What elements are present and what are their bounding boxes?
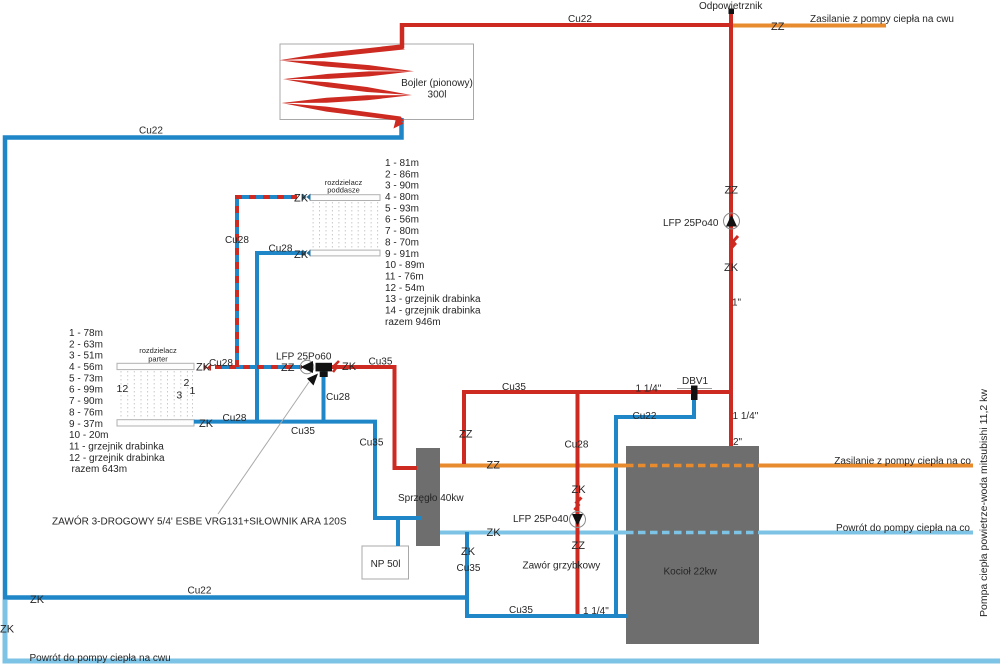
label Cu28 parter supply	[209, 358, 233, 369]
label loop number 12	[117, 383, 129, 395]
svg-text:8 - 70m: 8 - 70m	[385, 237, 419, 248]
valve ball ZK parter supply (red)	[204, 364, 212, 371]
svg-text:LFP 25Po40: LFP 25Po40	[663, 218, 719, 229]
valve ball ZK poddasze supply	[303, 194, 311, 201]
svg-text:10 - 89m: 10 - 89m	[385, 260, 424, 271]
label ZK red drop	[572, 484, 587, 496]
label LFP 25Po40 bottom	[513, 514, 569, 525]
label NP 50l	[371, 559, 401, 570]
label rozdzielacz parter	[139, 346, 177, 363]
label ZK parter supply	[196, 362, 211, 374]
svg-text:ZZ: ZZ	[459, 429, 473, 441]
label Cu35 red branch	[502, 382, 526, 393]
wire red drop to orange junction	[462, 392, 466, 464]
svg-text:6 - 99m: 6 - 99m	[69, 385, 103, 396]
label 1 1/4 inch riser	[733, 411, 759, 422]
svg-text:14 - grzejnik drabinka: 14 - grzejnik drabinka	[385, 306, 481, 317]
list poddasze loop lengths	[385, 158, 481, 328]
label Pompa ciepla vertical	[978, 389, 990, 617]
svg-text:2 - 86m: 2 - 86m	[385, 169, 419, 180]
svg-text:ZK: ZK	[30, 594, 45, 606]
svg-text:1": 1"	[732, 298, 742, 309]
label Bojler (pionowy) 300l	[401, 78, 473, 101]
wire red main riser	[729, 13, 733, 446]
svg-text:Cu22: Cu22	[188, 586, 212, 597]
label ZZ riser top	[725, 185, 739, 197]
manifold rozdzielacz parter bars	[117, 363, 194, 426]
svg-text:300l: 300l	[428, 90, 447, 101]
svg-text:Cu28: Cu28	[269, 244, 293, 255]
svg-text:4 - 56m: 4 - 56m	[69, 362, 103, 373]
expansion vessel NP 50l box	[362, 546, 409, 579]
wire blue Cu22 from DBV1 down to boiler bottom	[616, 392, 694, 614]
svg-text:NP 50l: NP 50l	[371, 559, 401, 570]
wire blue vertical under globe valve to boiler bottom	[467, 532, 627, 616]
svg-text:3: 3	[176, 390, 182, 402]
svg-text:ZZ: ZZ	[572, 540, 586, 552]
label Cu35 right of 3-way valve	[369, 357, 393, 368]
svg-text:parter: parter	[148, 355, 168, 364]
wire Cu22 cold loop from Bojler: left long run	[5, 118, 467, 598]
tank Bojler box	[280, 44, 474, 120]
wire red entry into Bojler coil	[400, 23, 405, 48]
label ZK parter return	[199, 418, 214, 430]
svg-text:ZK: ZK	[0, 624, 15, 636]
label ZZ below globe valve	[572, 540, 586, 552]
svg-text:Pompa ciepła powietrze-woda mi: Pompa ciepła powietrze-woda mitsubishi 1…	[978, 389, 990, 617]
label Cu35 below run	[291, 426, 315, 437]
svg-text:Kocioł 22kw: Kocioł 22kw	[664, 567, 718, 578]
svg-text:poddasze: poddasze	[327, 185, 360, 194]
label ZK right of 3-way valve	[342, 361, 357, 373]
svg-text:1: 1	[190, 385, 196, 397]
wire red from 3-way valve to separator	[331, 367, 417, 468]
label ZZ on orange top	[771, 21, 785, 33]
wire blue stub to NP 50l vessel	[396, 518, 400, 546]
list parter loop lengths	[69, 328, 165, 475]
svg-text:10 - 20m: 10 - 20m	[69, 430, 108, 441]
label ZZ at 3-way valve	[281, 362, 295, 374]
hydraulic separator Sprzeglo 40kw body	[416, 448, 440, 546]
svg-text:ZZ: ZZ	[281, 362, 295, 374]
svg-text:Cu28: Cu28	[225, 235, 249, 246]
svg-text:ZK: ZK	[294, 249, 309, 261]
svg-text:1 1/4": 1 1/4"	[636, 384, 662, 395]
label ZK riser	[724, 262, 739, 274]
svg-text:Cu28: Cu28	[209, 358, 233, 369]
svg-text:ZZ: ZZ	[725, 185, 739, 197]
svg-text:11 - grzejnik drabinka: 11 - grzejnik drabinka	[69, 442, 164, 453]
svg-text:1 - 78m: 1 - 78m	[69, 328, 103, 339]
label ZK bottom left	[0, 624, 15, 636]
svg-text:5 - 73m: 5 - 73m	[69, 373, 103, 384]
label loop number 3	[176, 390, 182, 402]
svg-text:Cu35: Cu35	[369, 357, 393, 368]
label Cu35 on blue drop x467	[457, 563, 481, 574]
svg-text:razem 946m: razem 946m	[385, 317, 441, 328]
valve globe LFP 25Po40 (bottom)	[570, 512, 586, 528]
valve ball ZK poddasze return	[303, 250, 311, 257]
heating coil in Bojler	[279, 45, 414, 129]
svg-text:ZK: ZK	[487, 527, 502, 539]
svg-text:Zasilanie z pompy ciepła na cw: Zasilanie z pompy ciepła na cwu	[810, 14, 954, 25]
svg-text:Cu28: Cu28	[326, 392, 350, 403]
label Zawor grzybkowy	[523, 561, 601, 572]
label ZK bottom Cu22	[30, 594, 45, 606]
wire blue return poddasze Cu28	[257, 253, 306, 422]
label Cu22 top	[568, 14, 592, 25]
svg-text:Zasilanie z pompy ciepła na co: Zasilanie z pompy ciepła na co	[834, 456, 971, 467]
boiler Kociol 22kw body	[626, 446, 759, 644]
svg-text:Sprzęgło 40kw: Sprzęgło 40kw	[398, 493, 464, 504]
svg-text:razem 643m: razem 643m	[72, 464, 128, 475]
svg-text:DBV1: DBV1	[682, 376, 709, 387]
label Kociol 22kw	[664, 567, 718, 578]
svg-text:3 - 90m: 3 - 90m	[385, 181, 419, 192]
svg-text:12 - grzejnik drabinka: 12 - grzejnik drabinka	[69, 453, 165, 464]
svg-text:Cu35: Cu35	[509, 605, 533, 616]
label Cu35 on drop to separator	[360, 438, 384, 449]
svg-text:ZK: ZK	[461, 546, 476, 558]
svg-text:ZK: ZK	[572, 484, 587, 496]
wire red Cu28 drop through globe valve	[576, 392, 580, 614]
svg-text:Powrót do pompy ciepła na cwu: Powrót do pompy ciepła na cwu	[30, 653, 171, 664]
air vent Odpowietrznik symbol	[729, 9, 735, 15]
label Powrot do pompy ciepla na co	[836, 523, 970, 534]
svg-text:ZK: ZK	[294, 193, 309, 205]
svg-text:Cu22: Cu22	[568, 14, 592, 25]
svg-text:Bojler (pionowy): Bojler (pionowy)	[401, 78, 473, 89]
label Cu28 poddasze return	[269, 244, 293, 255]
label Cu22 bottom run	[188, 586, 212, 597]
valve LFP 25Po40 on riser (top)	[724, 213, 740, 229]
wire blue Cu35 horizontal from parter to separator	[194, 422, 422, 518]
label 1 1/4 inch red branch	[636, 384, 662, 395]
label Odpowietrznik	[699, 1, 763, 12]
label ZK on light blue main	[487, 527, 502, 539]
label loop number 2	[184, 377, 190, 389]
svg-text:1 - 81m: 1 - 81m	[385, 158, 419, 169]
svg-text:ZAWÓR 3-DROGOWY 5/4' ESBE VRG1: ZAWÓR 3-DROGOWY 5/4' ESBE VRG131+SIŁOWNI…	[52, 515, 347, 528]
svg-text:Cu35: Cu35	[457, 563, 481, 574]
valve tick red right of LFP 25Po60	[333, 361, 339, 372]
label rozdzielacz poddasze	[325, 178, 363, 195]
label loop number 1	[190, 385, 196, 397]
svg-text:7 - 90m: 7 - 90m	[69, 396, 103, 407]
wire orange supply co from separator to heat pump	[440, 464, 973, 468]
wire red branch Cu35 horizontal with DBV1	[462, 390, 733, 394]
valve DBV1 body	[677, 386, 712, 401]
svg-text:2 - 63m: 2 - 63m	[69, 339, 103, 350]
label ZK on blue drop x467	[461, 546, 476, 558]
wire supply dashed red-blue to manifolds: base	[215, 197, 302, 367]
label Zasilanie z pompy ciepla na co	[834, 456, 971, 467]
label ZZ on orange main	[487, 460, 501, 472]
valve 3-way LFP 25Po60 with actuator	[300, 360, 332, 377]
svg-text:5 - 93m: 5 - 93m	[385, 203, 419, 214]
svg-text:13 - grzejnik drabinka: 13 - grzejnik drabinka	[385, 294, 481, 305]
svg-text:11 - 76m: 11 - 76m	[385, 272, 424, 283]
label ZK poddasze return	[294, 249, 309, 261]
svg-text:Cu35: Cu35	[291, 426, 315, 437]
label LFP 25Po40 top	[663, 218, 719, 229]
label Cu35 bottom middle	[509, 605, 533, 616]
svg-text:Cu28: Cu28	[565, 440, 589, 451]
svg-text:ZK: ZK	[342, 361, 357, 373]
label ZAWOR 3-DROGOWY note	[52, 515, 347, 528]
svg-text:2": 2"	[733, 437, 743, 448]
svg-text:6 - 56m: 6 - 56m	[385, 215, 419, 226]
label Powrot do pompy ciepla na cwu	[30, 653, 171, 664]
label DBV1	[682, 376, 709, 387]
label Cu22 left	[139, 126, 163, 137]
svg-text:ZK: ZK	[199, 418, 214, 430]
valve tick red above globe valve	[575, 498, 582, 511]
label Cu28 dashed riser	[225, 235, 249, 246]
label ZK poddasze supply	[294, 193, 309, 205]
label Sprzeglo 40kw	[398, 493, 464, 504]
svg-text:Cu22: Cu22	[633, 411, 657, 422]
svg-text:4 - 80m: 4 - 80m	[385, 192, 419, 203]
svg-text:LFP 25Po40: LFP 25Po40	[513, 514, 569, 525]
label 1 1/4 inch at globe drop	[583, 606, 609, 617]
valve tick red below LFP 25Po40 top	[731, 236, 738, 249]
svg-text:12 - 54m: 12 - 54m	[385, 283, 424, 294]
label Zasilanie z pompy ciepla na cwu	[810, 14, 954, 25]
wire orange supply cwu from heat pump (top right)	[731, 24, 886, 28]
label Cu28 stem	[326, 392, 350, 403]
label Cu28 red drop	[565, 440, 589, 451]
svg-text:1 1/4": 1 1/4"	[733, 411, 759, 422]
svg-text:1 1/4": 1 1/4"	[583, 606, 609, 617]
label Cu22 DBV branch	[633, 411, 657, 422]
svg-text:8 - 76m: 8 - 76m	[69, 407, 103, 418]
svg-text:ZZ: ZZ	[487, 460, 501, 472]
svg-text:9 - 37m: 9 - 37m	[69, 419, 103, 430]
label LFP 25Po60	[276, 352, 332, 363]
label 1 inch riser	[732, 298, 742, 309]
svg-text:Cu35: Cu35	[360, 438, 384, 449]
wire light blue return co from separator to heat pump	[440, 531, 973, 535]
pointer line to 3-way valve	[218, 374, 318, 515]
svg-text:ZK: ZK	[724, 262, 739, 274]
svg-text:Odpowietrznik: Odpowietrznik	[699, 1, 763, 12]
label 2 inch riser	[733, 437, 743, 448]
svg-text:LFP 25Po60: LFP 25Po60	[276, 352, 332, 363]
svg-text:Cu22: Cu22	[139, 126, 163, 137]
manifold rozdzielacz poddasze bars	[310, 195, 380, 256]
svg-text:Cu28: Cu28	[223, 413, 247, 424]
label Cu28 above Cu35 run	[223, 413, 247, 424]
wire light blue return cwu: left vertical and bottom full width	[5, 600, 1000, 662]
svg-text:Cu35: Cu35	[502, 382, 526, 393]
svg-text:7 - 80m: 7 - 80m	[385, 226, 419, 237]
wire blue stem from 3-way valve LFP 25Po60	[322, 371, 326, 422]
svg-text:3 - 51m: 3 - 51m	[69, 351, 103, 362]
wire red Cu22 top from Bojler to air vent node	[400, 23, 731, 27]
svg-text:Powrót do pompy ciepła na co: Powrót do pompy ciepła na co	[836, 523, 970, 534]
label ZZ on red drop x464	[459, 429, 473, 441]
svg-text:12: 12	[117, 383, 129, 395]
svg-text:9 - 91m: 9 - 91m	[385, 249, 419, 260]
svg-text:Zawór grzybkowy: Zawór grzybkowy	[523, 561, 601, 572]
svg-text:ZZ: ZZ	[771, 21, 785, 33]
